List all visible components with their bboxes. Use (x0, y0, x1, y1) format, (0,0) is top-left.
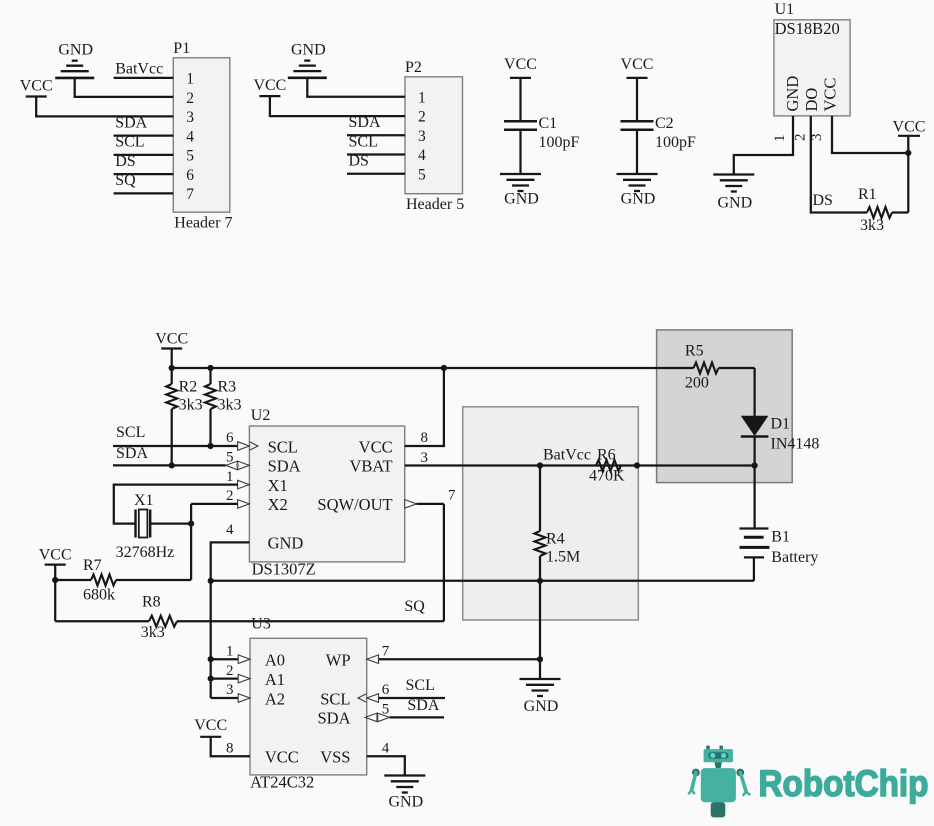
svg-text:5: 5 (418, 166, 426, 183)
svg-text:U1: U1 (775, 1, 795, 18)
svg-text:470K: 470K (589, 468, 625, 485)
svg-text:SCL: SCL (115, 134, 144, 151)
svg-text:P1: P1 (173, 40, 190, 57)
svg-text:200: 200 (685, 375, 709, 392)
svg-text:7: 7 (448, 488, 456, 504)
svg-text:7: 7 (186, 186, 194, 203)
svg-text:SQ: SQ (404, 598, 425, 615)
svg-text:WP: WP (326, 651, 351, 670)
svg-text:VCC: VCC (359, 437, 393, 456)
svg-text:3: 3 (418, 128, 426, 145)
svg-text:B1: B1 (771, 529, 790, 546)
svg-text:4: 4 (186, 128, 194, 145)
svg-text:SCL: SCL (406, 677, 435, 694)
svg-text:GND: GND (524, 698, 559, 715)
svg-text:RobotChip: RobotChip (759, 763, 929, 804)
svg-text:P2: P2 (405, 59, 422, 76)
svg-text:R8: R8 (142, 594, 161, 611)
svg-text:2: 2 (418, 109, 426, 126)
svg-text:GND: GND (58, 41, 93, 58)
svg-text:2: 2 (793, 134, 809, 142)
svg-text:GND: GND (388, 794, 423, 811)
svg-text:DS: DS (813, 192, 833, 209)
svg-text:C2: C2 (655, 115, 674, 132)
svg-text:3k3: 3k3 (141, 624, 165, 641)
svg-text:1.5M: 1.5M (546, 549, 580, 566)
svg-text:R7: R7 (83, 557, 102, 574)
svg-text:A0: A0 (265, 651, 285, 670)
svg-text:R5: R5 (685, 343, 704, 360)
svg-text:DS1307Z: DS1307Z (252, 560, 316, 579)
svg-text:DO: DO (802, 88, 821, 112)
svg-text:Battery: Battery (771, 549, 818, 566)
svg-text:3k3: 3k3 (860, 217, 884, 234)
svg-text:VCC: VCC (893, 118, 926, 135)
svg-text:SQ: SQ (115, 172, 136, 189)
svg-text:D1: D1 (771, 415, 791, 432)
svg-text:GND: GND (621, 191, 656, 208)
svg-text:SDA: SDA (349, 114, 381, 131)
svg-text:7: 7 (382, 643, 390, 659)
svg-text:VCC: VCC (253, 77, 286, 94)
svg-text:C1: C1 (539, 115, 558, 132)
svg-text:R6: R6 (597, 447, 616, 464)
svg-text:BatVcc: BatVcc (543, 447, 591, 464)
svg-text:32768Hz: 32768Hz (116, 544, 175, 561)
svg-text:SCL: SCL (268, 437, 298, 456)
svg-text:100pF: 100pF (539, 134, 580, 151)
svg-text:3: 3 (421, 450, 429, 466)
svg-text:R1: R1 (858, 186, 877, 203)
svg-text:8: 8 (226, 740, 234, 756)
svg-text:4: 4 (226, 522, 234, 538)
svg-text:SQW/OUT: SQW/OUT (317, 495, 392, 514)
svg-text:R2: R2 (179, 379, 198, 396)
svg-text:AT24C32: AT24C32 (250, 772, 314, 791)
svg-text:VCC: VCC (155, 331, 188, 348)
svg-text:SDA: SDA (317, 709, 350, 728)
svg-text:GND: GND (504, 191, 539, 208)
svg-text:1: 1 (186, 71, 194, 88)
svg-text:Header 5: Header 5 (406, 196, 464, 213)
svg-text:3: 3 (226, 682, 234, 698)
svg-text:680k: 680k (83, 587, 115, 604)
svg-text:4: 4 (382, 741, 390, 757)
svg-text:VSS: VSS (320, 748, 350, 767)
svg-text:3: 3 (186, 109, 194, 126)
svg-text:BatVcc: BatVcc (115, 61, 163, 78)
svg-text:1: 1 (418, 89, 426, 106)
svg-text:VCC: VCC (621, 56, 654, 73)
svg-text:6: 6 (186, 167, 194, 184)
svg-text:SCL: SCL (116, 424, 145, 441)
svg-text:SDA: SDA (407, 697, 439, 714)
svg-text:100pF: 100pF (655, 134, 696, 151)
svg-text:VCC: VCC (20, 77, 53, 94)
svg-text:GND: GND (783, 76, 802, 112)
svg-text:6: 6 (382, 682, 390, 698)
svg-text:X2: X2 (268, 495, 288, 514)
svg-text:1: 1 (772, 135, 788, 143)
svg-text:GND: GND (268, 534, 304, 553)
svg-text:X1: X1 (134, 492, 154, 509)
svg-text:2: 2 (226, 663, 234, 679)
svg-text:3k3: 3k3 (179, 397, 203, 414)
svg-text:2: 2 (226, 488, 234, 504)
svg-text:SDA: SDA (268, 457, 301, 476)
svg-text:4: 4 (418, 147, 426, 164)
svg-text:R3: R3 (218, 379, 237, 396)
svg-text:SDA: SDA (116, 445, 148, 462)
svg-text:SDA: SDA (115, 114, 147, 131)
svg-text:GND: GND (717, 195, 752, 212)
svg-text:1: 1 (226, 469, 234, 485)
svg-text:8: 8 (421, 430, 429, 446)
svg-text:VCC: VCC (194, 717, 227, 734)
svg-text:U2: U2 (251, 407, 271, 424)
svg-text:X1: X1 (268, 476, 288, 495)
svg-text:DS: DS (115, 153, 135, 170)
svg-text:A1: A1 (265, 670, 285, 689)
svg-text:VCC: VCC (821, 78, 840, 112)
svg-text:VCC: VCC (265, 748, 299, 767)
svg-text:6: 6 (226, 430, 234, 446)
svg-text:VBAT: VBAT (350, 457, 393, 476)
svg-text:IN4148: IN4148 (771, 436, 820, 453)
svg-text:DS: DS (349, 153, 369, 170)
svg-text:3k3: 3k3 (218, 397, 242, 414)
svg-text:U3: U3 (251, 615, 271, 632)
svg-text:VCC: VCC (39, 546, 72, 563)
svg-text:A2: A2 (265, 689, 285, 708)
svg-text:2: 2 (186, 90, 194, 107)
svg-text:GND: GND (291, 41, 326, 58)
svg-text:VCC: VCC (504, 56, 537, 73)
svg-text:Header 7: Header 7 (174, 215, 232, 232)
svg-text:5: 5 (186, 148, 194, 165)
svg-text:DS18B20: DS18B20 (775, 19, 840, 38)
svg-text:R4: R4 (546, 531, 565, 548)
svg-text:SCL: SCL (349, 133, 378, 150)
svg-text:SCL: SCL (320, 689, 350, 708)
svg-text:1: 1 (226, 643, 234, 659)
